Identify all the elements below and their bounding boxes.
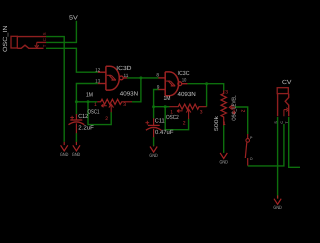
- svg-text:3: 3: [200, 110, 203, 116]
- svg-text:5V: 5V: [69, 14, 78, 21]
- op-amp gate IC3D 4093 NAND: [98, 66, 127, 90]
- junction dots: [75, 76, 208, 108]
- svg-text:1: 1: [170, 109, 173, 115]
- svg-text:IC3C: IC3C: [178, 70, 191, 77]
- pin S sleeve line: [17, 36, 46, 38]
- svg-text:1M: 1M: [164, 95, 171, 102]
- adjust arrow: [177, 109, 183, 112]
- wire C12 bottom to GND: [75, 133, 77, 142]
- svg-text:C12: C12: [78, 113, 88, 120]
- wire sleeve S to ground column: [46, 37, 64, 142]
- switch S1: [245, 134, 249, 166]
- wire CV tip to right edge: [289, 117, 300, 167]
- svg-text:1: 1: [223, 121, 226, 127]
- svg-text:1M: 1M: [86, 91, 93, 98]
- svg-text:11: 11: [124, 73, 129, 79]
- wire OSC2 wiper loop: [165, 107, 188, 130]
- svg-text:GND: GND: [220, 160, 229, 166]
- wire C12 top: [75, 102, 77, 115]
- svg-text:OSC1: OSC1: [88, 108, 100, 115]
- potentiometer OSC_LEVEL: [221, 90, 235, 125]
- svg-text:4093N: 4093N: [120, 91, 138, 98]
- pin T tip spring: [17, 45, 43, 48]
- wiper caret: [229, 105, 235, 110]
- wiper caret: [186, 109, 191, 119]
- wire IC3C out to pot: [187, 84, 224, 91]
- wire C11 bottom to GND: [153, 137, 155, 146]
- svg-text:C: C: [42, 38, 47, 41]
- svg-text:S: S: [42, 32, 47, 35]
- wire jack T to pin 12: [46, 48, 98, 72]
- svg-text:2: 2: [183, 121, 186, 127]
- pin 9 stub: [158, 89, 165, 91]
- pin 13 stub: [98, 83, 106, 85]
- svg-text:OSC_IN: OSC_IN: [2, 26, 9, 52]
- svg-text:2: 2: [240, 110, 246, 113]
- svg-text:P: P: [250, 136, 253, 140]
- resistor trimmer OSC2: [170, 104, 207, 119]
- svg-text:3: 3: [225, 89, 228, 95]
- svg-text:T: T: [42, 44, 47, 47]
- capacitor C12: [69, 114, 85, 133]
- op-amp gate IC3C 4093 NAND: [158, 72, 187, 96]
- pin 8 stub: [158, 77, 165, 79]
- svg-text:GND: GND: [72, 152, 81, 158]
- svg-text:8: 8: [156, 73, 159, 79]
- pin 11 stub: [123, 77, 127, 79]
- wire 5V drop: [75, 21, 77, 43]
- wire IC3D out to IC3C in: [127, 77, 159, 79]
- hysteresis mark: [166, 81, 175, 86]
- switch arm arrow: [284, 108, 289, 117]
- pin C line: [37, 41, 47, 43]
- svg-text:CV: CV: [282, 79, 292, 86]
- svg-text:13: 13: [95, 79, 100, 85]
- connector J2 CV jack body: [277, 88, 289, 117]
- capacitor C11: [145, 118, 161, 137]
- ground symbol 3: [150, 146, 157, 152]
- ground symbol 5: [274, 195, 281, 204]
- connector J1 jack body: [11, 36, 46, 48]
- svg-text:C: C: [280, 121, 284, 124]
- wire RC node to OSC1 pin1: [76, 101, 97, 103]
- tip spring: [285, 94, 289, 117]
- wire pot bottom to GND: [223, 125, 225, 153]
- wire switch bottom to jack C: [248, 124, 284, 166]
- svg-text:OSC_LEVEL: OSC_LEVEL: [231, 95, 237, 121]
- wiper caret: [109, 104, 114, 112]
- svg-text:O: O: [250, 157, 253, 161]
- svg-text:1: 1: [94, 102, 97, 108]
- svg-text:GND: GND: [273, 205, 282, 211]
- ground symbol 4: [220, 153, 227, 159]
- resistor trimmer OSC1: [97, 99, 132, 112]
- switch arm arrow: [35, 42, 39, 47]
- svg-text:3: 3: [123, 102, 126, 108]
- svg-text:10: 10: [182, 78, 187, 84]
- wire pot wiper to switch: [235, 107, 248, 134]
- wire pin 13 to RC node: [76, 84, 98, 102]
- wire pin 9 to RC node 2: [154, 90, 159, 107]
- pin 12 stub: [98, 71, 106, 73]
- wire OSC1 wiper loop: [88, 102, 111, 125]
- hysteresis mark: [107, 75, 116, 80]
- ground symbol 2: [73, 142, 80, 151]
- adjust arrow: [233, 109, 236, 114]
- svg-text:2.2uF: 2.2uF: [78, 125, 94, 132]
- svg-text:2: 2: [105, 116, 108, 122]
- svg-text:IC3D: IC3D: [116, 65, 132, 72]
- wire RC node 2 to OSC2 pin1: [154, 106, 170, 108]
- wire jack C to 5V: [46, 41, 76, 43]
- svg-text:0.47uF: 0.47uF: [155, 129, 174, 136]
- svg-text:GND: GND: [60, 152, 69, 158]
- svg-text:4093N: 4093N: [178, 91, 196, 98]
- pin 10 stub: [182, 83, 188, 85]
- wire C11 top: [153, 107, 155, 119]
- svg-text:500k: 500k: [214, 116, 220, 131]
- wire CV sleeve to GND: [277, 117, 279, 199]
- wire OSC2 right end up: [206, 84, 208, 107]
- ground symbol 1: [61, 142, 68, 151]
- sleeve line: [277, 94, 279, 117]
- svg-text:12: 12: [95, 67, 100, 73]
- adjust arrow: [101, 104, 107, 107]
- svg-text:9: 9: [157, 84, 160, 90]
- svg-text:C11: C11: [155, 117, 165, 124]
- svg-text:GND: GND: [149, 153, 158, 159]
- wire feedback down from out node: [132, 78, 141, 102]
